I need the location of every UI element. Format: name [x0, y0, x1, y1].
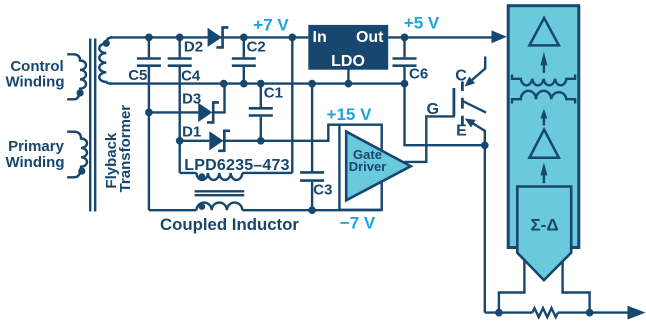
- capacitor C3 plates: [300, 172, 324, 180]
- svg-text:C1: C1: [264, 85, 283, 102]
- svg-text:C3: C3: [313, 181, 332, 198]
- svg-text:G: G: [426, 101, 438, 118]
- svg-text:C5: C5: [128, 67, 147, 84]
- wire: LDO bottom pin: [347, 69, 349, 84]
- diode D1 (zener): [209, 131, 230, 151]
- polarity dot secondary winding: [103, 40, 110, 47]
- isolator block: [508, 6, 579, 248]
- resistor R1: [532, 308, 558, 317]
- wire: left vertical x=148.9 with C5 gap: [148, 37, 150, 210]
- svg-text:Driver: Driver: [349, 159, 387, 174]
- wire: LDO output +5V: [388, 36, 494, 38]
- polarity dot primary winding: [78, 168, 85, 175]
- arrowhead +5V into isolator: [492, 30, 507, 43]
- wire: E node down to shunt rail: [484, 145, 486, 312]
- capacitor C1 plates: [249, 108, 273, 115]
- svg-text:Σ-Δ: Σ-Δ: [530, 216, 558, 235]
- svg-text:Control: Control: [10, 58, 63, 75]
- svg-text:Winding: Winding: [5, 74, 64, 91]
- transistor Q1 collector lead: [472, 57, 485, 81]
- arrow up 1: [540, 52, 547, 73]
- wire: vertical x=312.1 with C3 gap: [311, 84, 313, 211]
- wire: gate driver output to gate: [404, 116, 455, 161]
- wire: top rail +7V: [110, 36, 308, 38]
- arrowhead shunt rail output: [628, 306, 646, 320]
- gate driver U2 triangle: [346, 132, 411, 201]
- polarity dot coupled inductor bottom: [199, 203, 206, 210]
- svg-text:C: C: [455, 67, 467, 84]
- control winding: [67, 54, 86, 99]
- diode D3 (zener): [198, 102, 219, 122]
- wire: vertical x=292.3 (+7V feed): [291, 37, 293, 173]
- svg-text:In: In: [313, 29, 327, 46]
- svg-text:−7 V: −7 V: [340, 213, 376, 232]
- isolation transformer T2: [512, 75, 575, 104]
- svg-text:C6: C6: [409, 65, 428, 82]
- sigma-delta modulator block: [517, 187, 571, 281]
- wire: sigma-delta left leg: [499, 260, 525, 313]
- svg-text:+5 V: +5 V: [404, 14, 440, 33]
- wire: row2 (control winding bottom): [110, 82, 405, 84]
- diode D2 (zener): [208, 27, 229, 47]
- gate driver box U2: [339, 125, 381, 210]
- svg-text:Transformer: Transformer: [117, 105, 134, 193]
- svg-text:+7 V: +7 V: [253, 16, 289, 35]
- wire: vertical x=179.7 with C4 gap: [178, 37, 180, 173]
- transistor Q1 middle stub: [463, 101, 486, 112]
- arrow up 3: [540, 163, 547, 184]
- wire: sigma-delta right leg: [563, 260, 590, 313]
- polarity dot control winding: [77, 89, 84, 96]
- svg-text:LDO: LDO: [331, 53, 365, 70]
- svg-text:Coupled Inductor: Coupled Inductor: [160, 215, 299, 234]
- transformer core T1: [90, 39, 95, 212]
- LDO U1: [308, 25, 388, 70]
- isolator amplifier A1: [529, 18, 559, 45]
- secondary winding (right of core): [99, 37, 112, 83]
- transistor Q1 (IGBT) gate bar: [452, 88, 455, 117]
- wire: C2 vertical segment: [243, 37, 245, 83]
- transistor Q1 channel bar (dashed): [461, 82, 464, 126]
- svg-text:LPD6235–473: LPD6235–473: [184, 157, 289, 174]
- svg-text:Winding: Winding: [5, 154, 64, 171]
- svg-text:D2: D2: [184, 38, 203, 55]
- svg-text:Primary: Primary: [8, 138, 65, 155]
- capacitor C2 plates: [232, 59, 256, 66]
- arrow up 2: [540, 109, 547, 126]
- svg-text:C2: C2: [247, 38, 266, 55]
- coupled inductor L1 bottom winding: [197, 203, 243, 211]
- coupled inductor L1 top winding: [197, 173, 243, 180]
- isolator amplifier A2: [529, 130, 559, 158]
- svg-text:C4: C4: [181, 68, 201, 85]
- wire: bottom -7V rail: [149, 209, 382, 211]
- wire: D1 row to +15V corner: [180, 125, 340, 141]
- polarity dot coupled inductor top: [199, 173, 206, 180]
- svg-text:Out: Out: [356, 29, 384, 46]
- wire: D3 row: [149, 84, 225, 113]
- svg-text:D3: D3: [182, 91, 201, 108]
- capacitor C6 plates: [393, 59, 417, 66]
- svg-text:+15 V: +15 V: [327, 105, 373, 124]
- wire: C1 vertical with plate gap: [260, 84, 262, 141]
- coupled inductor core: [195, 191, 245, 195]
- capacitor C4 plates: [168, 59, 192, 66]
- primary winding: [67, 132, 87, 178]
- capacitor C5 plates: [137, 59, 161, 66]
- svg-text:E: E: [456, 123, 467, 140]
- transistor Q1 emitter lead: [473, 124, 485, 146]
- wire: LPD box bottom (coupled inductor top lead): [180, 172, 293, 174]
- wire: shunt rail with resistor gap: [485, 311, 631, 313]
- wire: C6 vertical and wire to E node: [405, 37, 485, 145]
- svg-text:D1: D1: [182, 123, 201, 140]
